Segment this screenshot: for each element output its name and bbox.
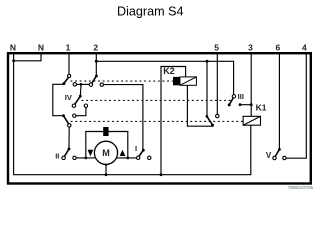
svg-text:IV: IV [65, 93, 72, 102]
svg-text:2: 2 [93, 43, 98, 53]
svg-text:N: N [10, 43, 16, 53]
svg-text:Diagram S4: Diagram S4 [117, 4, 184, 18]
svg-text:III: III [238, 92, 244, 101]
svg-text:M: M [102, 148, 110, 158]
svg-text:3: 3 [248, 43, 253, 53]
svg-text:4: 4 [302, 43, 307, 53]
svg-text:1: 1 [66, 43, 71, 53]
svg-text:780601/0765: 780601/0765 [288, 185, 314, 190]
svg-text:6: 6 [276, 43, 281, 53]
svg-text:N: N [38, 43, 44, 53]
svg-text:K2: K2 [163, 66, 175, 76]
svg-text:I: I [135, 144, 137, 153]
svg-text:V: V [266, 151, 272, 160]
svg-text:5: 5 [214, 43, 219, 53]
svg-text:II: II [55, 152, 59, 161]
svg-text:K1: K1 [256, 103, 267, 113]
